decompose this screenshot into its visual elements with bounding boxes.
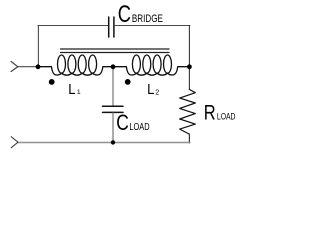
label C_BRIDGE bbox=[118, 1, 163, 28]
wire: bottom rail bbox=[18, 142, 190, 144]
input terminal bottom-left bbox=[11, 137, 18, 148]
wire: right vertical riser bbox=[188, 26, 190, 67]
svg-text:LOAD: LOAD bbox=[217, 111, 236, 121]
inductor L2 bbox=[113, 55, 189, 75]
svg-text:L: L bbox=[68, 81, 75, 98]
wire: top input to node A bbox=[18, 66, 38, 68]
svg-text:C: C bbox=[118, 1, 131, 28]
label L1 bbox=[68, 81, 81, 98]
node A junction bbox=[36, 64, 41, 69]
phase dot L1 bbox=[49, 79, 55, 85]
label R_LOAD bbox=[204, 101, 236, 124]
wire: R_LOAD bottom lead bbox=[188, 134, 190, 143]
svg-text:2: 2 bbox=[155, 87, 159, 96]
svg-text:L: L bbox=[147, 81, 154, 98]
wire: C_LOAD bottom lead bbox=[112, 113, 114, 142]
wire: top rail left segment bbox=[38, 25, 108, 27]
wire: top rail right segment bbox=[114, 25, 189, 27]
svg-text:BRIDGE: BRIDGE bbox=[132, 13, 163, 25]
wire: left vertical riser bbox=[37, 26, 39, 67]
label C_LOAD bbox=[116, 110, 149, 135]
svg-text:1: 1 bbox=[77, 89, 81, 96]
node B junction bbox=[111, 64, 116, 69]
wire: C_LOAD top lead bbox=[112, 67, 114, 106]
inductor L1 bbox=[38, 55, 113, 75]
svg-text:R: R bbox=[204, 101, 216, 124]
node C junction bbox=[187, 64, 192, 69]
resistor R_LOAD bbox=[180, 89, 196, 134]
capacitor C_BRIDGE bbox=[109, 17, 114, 37]
label L2 bbox=[147, 81, 159, 98]
transformer core bbox=[61, 49, 170, 53]
svg-text:C: C bbox=[116, 110, 129, 135]
node D junction bbox=[111, 140, 115, 144]
svg-text:LOAD: LOAD bbox=[129, 122, 149, 133]
phase dot L2 bbox=[125, 79, 131, 85]
input terminal top-left bbox=[11, 62, 18, 72]
wire: R_LOAD top lead bbox=[188, 67, 190, 90]
capacitor C_LOAD bbox=[103, 106, 124, 112]
